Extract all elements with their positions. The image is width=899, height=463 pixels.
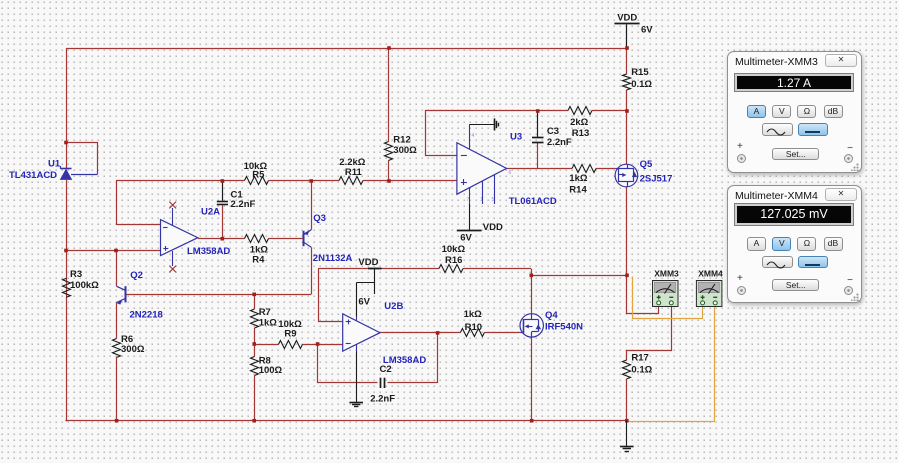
- svg-text:R5: R5: [252, 170, 265, 181]
- label IRF540N: [545, 322, 583, 333]
- label R7: [259, 307, 271, 318]
- wire Q3 emitter riser: [311, 181, 313, 230]
- label Q2: [130, 270, 143, 281]
- wire left rail lower: [66, 180, 68, 421]
- svg-text:4: 4: [472, 133, 475, 139]
- label Q5: [640, 159, 653, 170]
- wire R4 to Q3 base: [269, 238, 304, 240]
- multimeter icon XMM3: [653, 281, 679, 307]
- wire C1 lower stem: [222, 206, 224, 239]
- resistor R15: [623, 74, 631, 90]
- multimeter window XMM3: [727, 51, 862, 173]
- svg-text:300Ω: 300Ω: [121, 344, 145, 355]
- resistor R16: [439, 265, 463, 273]
- wire feedback top left leg: [426, 111, 538, 156]
- wire R9 to U2B inverting input: [302, 344, 342, 346]
- wire R10 to Q4 gate: [484, 332, 520, 334]
- wire C2 right branch: [388, 333, 438, 383]
- svg-text:R13: R13: [572, 128, 589, 139]
- label R12: [393, 135, 410, 146]
- svg-text:2kΩ: 2kΩ: [570, 117, 589, 128]
- wire right rail VDD to R15: [626, 25, 628, 75]
- multimeter icon XMM4: [696, 281, 722, 307]
- label R13: [572, 128, 589, 139]
- wire C3/R13 node to R13: [538, 110, 568, 112]
- svg-text:1: 1: [480, 197, 483, 203]
- svg-text:2.2nF: 2.2nF: [370, 394, 395, 405]
- label TL061ACD: [509, 196, 557, 207]
- wire node A to XMM3 plus: [627, 276, 659, 314]
- ground below U2B: [349, 352, 363, 407]
- op-amp U3 TL061ACD: [457, 125, 507, 205]
- label LM358AD U2A: [187, 246, 230, 257]
- wire U2B output to R10: [380, 332, 460, 334]
- svg-text:VDD: VDD: [358, 257, 378, 268]
- transistor Q2 2N2218: [117, 286, 126, 304]
- svg-text:XMM4: XMM4: [698, 269, 723, 279]
- resistor R10: [460, 329, 484, 337]
- wire R12 upper riser: [388, 48, 390, 142]
- svg-text:TL061ACD: TL061ACD: [509, 196, 557, 207]
- capacitor C3: [532, 138, 544, 143]
- wire net y181 segment 3: [363, 180, 457, 182]
- ground bottom right: [620, 421, 634, 452]
- resistor R6: [113, 339, 121, 358]
- label LM358AD U2B: [383, 355, 426, 366]
- wire R14 to Q5 gate: [596, 168, 615, 170]
- label VDD top: [617, 13, 637, 24]
- wire R7 top lead: [254, 294, 256, 309]
- orange wire XMM4 plus: [633, 277, 703, 319]
- svg-text:2.2nF: 2.2nF: [231, 199, 256, 210]
- resistor R8: [251, 357, 259, 376]
- VDD symbol top: [614, 23, 639, 25]
- wire R17 bottom lead: [626, 379, 628, 421]
- resistor R3: [63, 278, 71, 297]
- transistor Q3 2N1132A: [304, 230, 312, 248]
- label XMM3 icon: [654, 269, 679, 279]
- label 10kOhm R5: [244, 161, 268, 172]
- label R3: [70, 269, 82, 280]
- svg-text:LM358AD: LM358AD: [187, 246, 230, 257]
- wire node A horizontal: [531, 275, 627, 277]
- op-amp U2A LM358AD: [161, 208, 198, 266]
- svg-text:R11: R11: [345, 167, 363, 178]
- svg-text:2N2218: 2N2218: [130, 310, 163, 321]
- label VDD U2B: [358, 257, 378, 268]
- label TL431ACD: [9, 170, 57, 181]
- label 2N2218: [130, 310, 163, 321]
- label 0.1Ohm R15: [631, 79, 652, 90]
- wire node y344 left: [254, 344, 278, 346]
- svg-text:300Ω: 300Ω: [393, 145, 417, 156]
- svg-text:R14: R14: [569, 185, 587, 196]
- wire C3 top stem: [537, 111, 539, 138]
- label Q3: [313, 213, 326, 224]
- wire bottom rail: [65, 420, 626, 422]
- label 2.2nF C2: [370, 394, 395, 405]
- mosfet Q5 2SJ517: [615, 164, 638, 187]
- label 1kOhm R14: [569, 173, 588, 184]
- svg-text:R7: R7: [259, 307, 271, 318]
- svg-text:R17: R17: [631, 353, 648, 364]
- svg-text:Q4: Q4: [545, 310, 558, 321]
- svg-text:6V: 6V: [358, 297, 370, 308]
- svg-text:0.1Ω: 0.1Ω: [631, 365, 652, 376]
- wire node B horizontal (to U2A +): [66, 250, 161, 252]
- label 2.2nF C3: [547, 137, 572, 148]
- svg-text:100kΩ: 100kΩ: [70, 280, 99, 291]
- svg-text:1kΩ: 1kΩ: [259, 318, 278, 329]
- VDD symbol U2B: [356, 268, 381, 316]
- wire U2B noninverting input riser: [319, 269, 343, 322]
- wire net y269 left of R16: [318, 268, 439, 270]
- wire net y181 segment 2: [269, 180, 340, 182]
- svg-text:0.1Ω: 0.1Ω: [631, 79, 652, 90]
- label XMM4 icon: [698, 269, 723, 279]
- svg-text:6V: 6V: [460, 233, 472, 244]
- wire Q5 drain to node A: [626, 187, 628, 276]
- wire Q2 collector: [116, 251, 118, 287]
- U2A unused pin X bottom: [169, 266, 176, 273]
- svg-text:TL431ACD: TL431ACD: [9, 170, 57, 181]
- label R10: [465, 322, 482, 333]
- ground rotated at U3 V+: [469, 118, 498, 130]
- label 10kOhm R9: [278, 319, 302, 330]
- wire node to Q5 source: [626, 111, 628, 165]
- label R6: [121, 334, 133, 345]
- wire Q2 base net: [125, 294, 311, 296]
- label 10kOhm R16: [442, 244, 466, 255]
- wire XMM3 minus to R17: [627, 305, 672, 361]
- wire R8 bottom lead: [254, 376, 256, 421]
- mosfet Q4 IRF540N: [520, 314, 543, 338]
- svg-text:R15: R15: [631, 67, 649, 78]
- svg-text:R16: R16: [445, 255, 462, 266]
- wire U2A output to R4: [198, 238, 245, 240]
- svg-text:R12: R12: [393, 135, 410, 146]
- svg-text:1kΩ: 1kΩ: [464, 309, 483, 320]
- U2A unused pin X top: [169, 202, 176, 209]
- orange wire XMM4 minus to ground rail: [629, 305, 715, 422]
- svg-text:7: 7: [467, 197, 470, 203]
- label R9: [284, 329, 296, 340]
- wire U1 reference loop: [67, 143, 98, 175]
- label U1: [48, 159, 61, 170]
- label 0.1Ohm R17: [631, 365, 652, 376]
- resistor R11: [339, 177, 363, 185]
- label R17: [631, 353, 648, 364]
- svg-text:R3: R3: [70, 269, 82, 280]
- svg-text:R10: R10: [465, 322, 482, 333]
- label 2.2nF C1: [231, 199, 256, 210]
- svg-text:C2: C2: [380, 364, 392, 375]
- shunt regulator U1 TL431ACD: [60, 166, 97, 179]
- wire R7 bottom lead: [254, 328, 256, 344]
- label U2B: [384, 301, 403, 312]
- svg-text:Q3: Q3: [313, 213, 326, 224]
- svg-text:U2B: U2B: [384, 301, 403, 312]
- label U3: [510, 132, 522, 143]
- label 100Ohm R8: [259, 365, 283, 376]
- capacitor C1: [217, 202, 228, 205]
- label C2: [380, 364, 392, 375]
- resistor R9: [278, 341, 302, 349]
- label R15: [631, 67, 649, 78]
- label 6V U3: [460, 233, 472, 244]
- svg-text:6V: 6V: [641, 25, 653, 36]
- label 2kOhm R13: [570, 117, 589, 128]
- wire C2 left branch: [318, 345, 378, 383]
- wire R15 to node (R13 tap): [626, 90, 628, 111]
- resistor R4: [245, 235, 269, 243]
- wire R6 to bottom rail: [116, 358, 118, 421]
- wire top rail: [66, 48, 627, 50]
- label 1kOhm R10: [464, 309, 483, 320]
- label R11: [345, 167, 363, 178]
- label 1kOhm R4: [250, 245, 269, 256]
- resistor R12: [385, 142, 393, 161]
- svg-text:100Ω: 100Ω: [259, 365, 283, 376]
- VDD symbol U3: [457, 204, 482, 231]
- op-amp U2B LM358AD: [343, 314, 380, 352]
- svg-text:U1: U1: [48, 159, 61, 170]
- svg-text:IRF540N: IRF540N: [545, 322, 583, 333]
- capacitor C2: [381, 378, 385, 388]
- resistor R17: [623, 360, 631, 379]
- label 6V U2B: [358, 297, 370, 308]
- label 1kOhm R7: [259, 318, 278, 329]
- wire R12 lower lead: [388, 161, 390, 182]
- label C1: [231, 190, 244, 201]
- wire net y181 segment 1: [116, 180, 245, 182]
- label R14: [569, 185, 587, 196]
- svg-text:2SJ517: 2SJ517: [640, 174, 673, 185]
- wire U2A inverting input riser: [117, 181, 161, 225]
- label VDD U3: [483, 222, 503, 233]
- svg-text:Q2: Q2: [130, 270, 143, 281]
- wire U3 output to R14: [507, 168, 573, 170]
- svg-text:5: 5: [492, 197, 495, 203]
- wire C1 upper stem: [222, 181, 224, 201]
- wire C3 bottom stem: [537, 143, 539, 170]
- U3 pin numbers: [467, 133, 512, 203]
- svg-text:XMM3: XMM3: [654, 269, 679, 279]
- label 2.2kOhm R11: [339, 157, 365, 168]
- resistor R14: [572, 165, 596, 173]
- label 100kOhm R3: [70, 280, 99, 291]
- label C3: [547, 126, 559, 137]
- resistor R5: [245, 177, 269, 185]
- label 6V top: [641, 25, 653, 36]
- svg-text:Q5: Q5: [640, 159, 653, 170]
- svg-text:10kΩ: 10kΩ: [442, 244, 466, 255]
- wire left rail upper: [66, 48, 68, 169]
- label 2N1132A: [313, 253, 353, 264]
- wire Q2 emitter to R6: [116, 303, 118, 339]
- svg-text:2N1132A: 2N1132A: [313, 253, 353, 264]
- label Q4: [545, 310, 558, 321]
- wire Q3 collector drop: [311, 247, 313, 294]
- label U2A: [201, 207, 220, 218]
- svg-text:1kΩ: 1kΩ: [569, 173, 588, 184]
- wire Q4 source to bottom rail: [531, 337, 533, 421]
- label R16: [445, 255, 462, 266]
- label R5: [252, 170, 265, 181]
- resistor R7: [251, 309, 259, 328]
- svg-text:U2A: U2A: [201, 207, 220, 218]
- multimeter window XMM4: [727, 185, 862, 303]
- label 300Ohm R12: [393, 145, 417, 156]
- svg-text:U3: U3: [510, 132, 522, 143]
- svg-text:VDD: VDD: [617, 13, 637, 24]
- svg-text:R9: R9: [284, 329, 296, 340]
- svg-text:C3: C3: [547, 126, 559, 137]
- svg-text:VDD: VDD: [483, 222, 503, 233]
- label 2SJ517: [640, 174, 673, 185]
- wire R13 to right rail: [592, 110, 627, 112]
- wire R8 top lead: [254, 344, 256, 357]
- svg-text:2.2nF: 2.2nF: [547, 137, 572, 148]
- wire node A drop to Q4 drain: [531, 269, 533, 314]
- svg-text:R4: R4: [252, 255, 265, 266]
- label R8: [259, 356, 271, 367]
- label R4: [252, 255, 265, 266]
- resistor R13: [568, 107, 592, 115]
- svg-text:6: 6: [509, 170, 512, 176]
- wire net y269 right of R16: [463, 268, 531, 270]
- label 300Ohm R6: [121, 344, 145, 355]
